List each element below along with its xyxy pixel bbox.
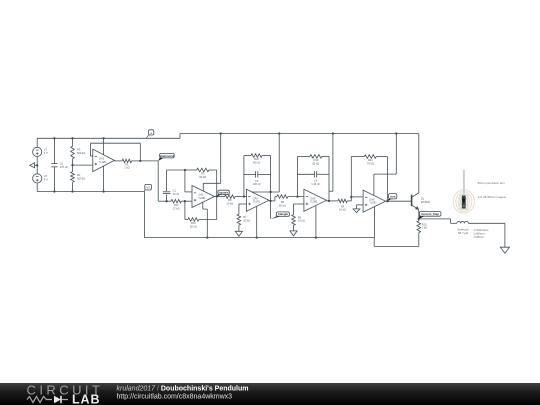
svg-text:2N3904: 2N3904: [421, 200, 431, 204]
svg-text:9 V: 9 V: [44, 151, 48, 155]
svg-text:TL081: TL081: [253, 200, 261, 204]
svg-text:82 kΩ: 82 kΩ: [253, 161, 260, 165]
svg-text:9 V: 9 V: [44, 177, 48, 181]
svg-text:TL081: TL081: [198, 196, 206, 200]
svg-text:82 kΩ: 82 kΩ: [199, 175, 206, 179]
svg-text:C1: C1: [173, 188, 177, 192]
svg-text:82 kΩ: 82 kΩ: [190, 224, 197, 228]
svg-text:TL081: TL081: [99, 160, 107, 164]
svg-text:r=45mm: r=45mm: [474, 235, 485, 239]
svg-text:470 µF: 470 µF: [60, 165, 69, 169]
svg-text:square: square: [219, 190, 229, 194]
svg-text:Hammond: Hammond: [160, 154, 174, 158]
svg-text:500 kΩ: 500 kΩ: [77, 151, 85, 155]
svg-text:TL081: TL081: [310, 200, 318, 204]
svg-text:V1: V1: [147, 186, 151, 190]
svg-text:75 kΩ: 75 kΩ: [367, 161, 374, 165]
svg-text:1 kΩ: 1 kΩ: [422, 226, 427, 230]
svg-text:100 nF: 100 nF: [253, 182, 261, 186]
svg-text:LAB: LAB: [72, 393, 100, 405]
svg-text:500 kΩ: 500 kΩ: [77, 176, 85, 180]
svg-text:Current_Step: Current_Step: [421, 212, 439, 216]
svg-text:C2: C2: [60, 162, 64, 166]
svg-text:10 nF: 10 nF: [173, 192, 180, 196]
svg-text:triangle: triangle: [278, 212, 289, 216]
svg-text:27 kΩ: 27 kΩ: [173, 206, 180, 210]
svg-text:kruland2017 / Doubochinski's P: kruland2017 / Doubochinski's Pendulum: [117, 386, 249, 393]
svg-text:80mm pendulum arm: 80mm pendulum arm: [478, 181, 506, 185]
svg-text:sine: sine: [390, 194, 396, 198]
svg-text:10 kΩ: 10 kΩ: [339, 208, 346, 212]
svg-text:10 kΩ: 10 kΩ: [298, 219, 305, 223]
svg-text:82 kΩ: 82 kΩ: [312, 161, 319, 165]
svg-text:TL081: TL081: [369, 201, 377, 205]
svg-text:1 kΩ: 1 kΩ: [124, 166, 129, 170]
svg-text:http://circuitlab.com/c8x8na4w: http://circuitlab.com/c8x8na4wkmwx3: [117, 394, 233, 401]
svg-text:1.32 nF: 1.32 nF: [311, 182, 320, 186]
svg-text:10 kΩ: 10 kΩ: [243, 218, 250, 222]
svg-text:10 kΩ: 10 kΩ: [226, 202, 233, 206]
svg-text:82 kΩ: 82 kΩ: [279, 203, 286, 207]
svg-text:56.7 µH: 56.7 µH: [458, 231, 468, 235]
svg-text:1x1.25x45mm magnet: 1x1.25x45mm magnet: [478, 195, 507, 199]
